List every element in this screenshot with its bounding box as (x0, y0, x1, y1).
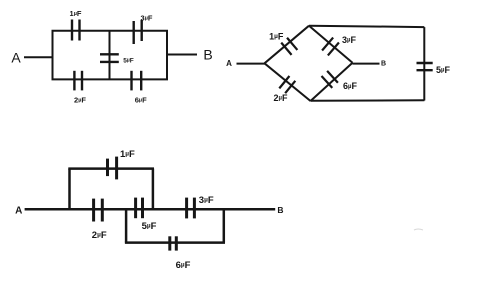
svg-text:2µF: 2µF (274, 93, 288, 103)
capacitor C6 6uF plates (bottom rail) (170, 236, 177, 250)
wire right edge (166, 31, 168, 80)
wire edge L-Bo (265, 63, 311, 101)
wire bottom edge (52, 78, 169, 80)
wire top loop top rail (68, 167, 154, 170)
svg-text:5µF: 5µF (436, 65, 450, 75)
capacitor C5 5uF plates (right rail) (417, 63, 433, 70)
svg-text:3µF: 3µF (199, 195, 214, 206)
wire B lead (353, 63, 380, 65)
capacitor C6 6uF plates (132, 71, 142, 91)
wire top edge (52, 30, 169, 32)
svg-text:3µF: 3µF (141, 14, 153, 23)
capacitor C2 2uF plates (74, 71, 82, 91)
svg-text:1µF: 1µF (70, 9, 82, 18)
wire B lead (167, 54, 197, 56)
svg-text:2µF: 2µF (92, 230, 107, 241)
wire A lead (237, 63, 266, 65)
svg-text:5µF: 5µF (123, 58, 134, 65)
wire main line (25, 208, 276, 211)
svg-text:6µF: 6µF (343, 81, 357, 91)
wire top loop left leg (68, 169, 71, 210)
svg-text:B: B (381, 61, 386, 68)
wire middle branch (109, 31, 111, 80)
capacitor C2 2uF plates (main line) (94, 199, 103, 222)
capacitor C3 3uF plates (main line) (187, 198, 195, 219)
wire right rail (423, 27, 425, 100)
wire bottom rail (311, 99, 425, 102)
wire bottom loop right leg (223, 209, 226, 242)
svg-text:B: B (277, 205, 283, 215)
wire A lead (24, 56, 53, 58)
capacitor C2 2uF plates (edge L-Bo) (279, 76, 295, 93)
capacitor C6 6uF plates (edge Bo-R) (322, 71, 338, 88)
faint smudge mark (414, 229, 423, 230)
wire edge Bo-R (311, 63, 353, 101)
capacitor C5 5uF plates (100, 54, 119, 62)
capacitor C1 1uF plates (edge L-T) (281, 38, 297, 55)
svg-text:A: A (15, 206, 22, 217)
wire edge T-R (309, 26, 353, 63)
svg-text:5µF: 5µF (142, 221, 157, 232)
svg-text:6µF: 6µF (135, 96, 147, 105)
wire bottom loop left leg (125, 209, 128, 242)
wire top rail (309, 26, 424, 27)
capacitor C1 1uF plates (72, 20, 80, 41)
wire top loop right leg (152, 169, 155, 210)
capacitor C3 3uF plates (edge T-R) (322, 38, 339, 56)
capacitor C5 5uF plates (main line) (136, 198, 143, 219)
svg-text:2µF: 2µF (74, 96, 86, 105)
svg-text:3µF: 3µF (342, 35, 356, 45)
svg-text:B: B (203, 47, 212, 63)
svg-text:A: A (11, 50, 21, 66)
wire left edge (52, 31, 54, 80)
svg-text:A: A (226, 59, 232, 68)
svg-text:6µF: 6µF (176, 260, 191, 271)
wire edge L-T (265, 26, 310, 64)
svg-text:1µF: 1µF (269, 31, 284, 41)
capacitor C1 1uF plates (top rail) (108, 157, 117, 180)
wire bottom loop bottom rail (125, 241, 225, 244)
svg-text:1µF: 1µF (120, 149, 135, 160)
capacitor C3 3uF plates (134, 20, 142, 44)
